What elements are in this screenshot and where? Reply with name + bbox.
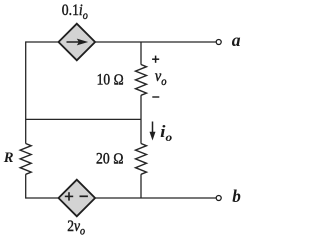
svg-text:0.1io: 0.1io: [62, 2, 88, 22]
wire top horizontal: [26, 41, 216, 43]
svg-text:a: a: [232, 30, 241, 50]
terminal b circle: [216, 196, 221, 201]
resistor R (zigzag): [20, 144, 31, 175]
terminal a circle: [216, 40, 221, 45]
wire right vertical: 10 ohm to 20 ohm: [140, 95, 142, 143]
svg-text:b: b: [232, 186, 241, 206]
wire right vertical: top wire to 10 ohm: [140, 42, 142, 65]
resistor 10 ohm (zigzag): [136, 65, 147, 96]
wire left vertical lower: [25, 174, 27, 198]
dependent voltage source 2vo (diamond): [59, 180, 96, 217]
dependent current source 0.1io (diamond): [59, 24, 96, 61]
svg-text:R: R: [3, 150, 14, 166]
current arrow io: [152, 122, 154, 135]
wire bottom horizontal: [26, 197, 216, 199]
wire left vertical upper: [25, 41, 27, 143]
svg-text:io: io: [160, 122, 172, 144]
svg-text:2vo: 2vo: [67, 218, 85, 238]
minus sign inside voltage source: [80, 195, 88, 197]
svg-text:20 Ω: 20 Ω: [96, 150, 124, 167]
arrow inside current source: [67, 41, 80, 43]
minus label vo: [152, 96, 159, 98]
wire right vertical: 20 ohm to bottom wire: [140, 174, 142, 198]
svg-text:vo: vo: [155, 68, 167, 88]
resistor 20 ohm (zigzag): [136, 144, 147, 175]
plus label vo: [152, 56, 159, 63]
plus sign inside voltage source: [65, 195, 73, 197]
svg-text:10 Ω: 10 Ω: [97, 71, 124, 88]
wire middle horizontal: [26, 118, 141, 120]
